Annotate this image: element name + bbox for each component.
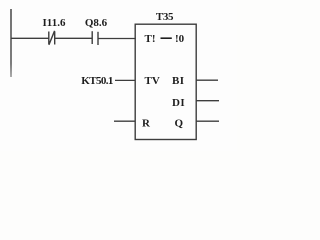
contact I11.6 (normally closed): [49, 31, 55, 45]
svg-text:Q: Q: [175, 117, 184, 129]
wire DI output: [196, 100, 219, 102]
svg-text:Q8.6: Q8.6: [85, 17, 108, 29]
svg-text:I11.6: I11.6: [43, 17, 66, 29]
timer type symbol T! - !0: [145, 33, 185, 45]
svg-text:!0: !0: [175, 33, 185, 45]
wire between I11.6 and Q8.6: [55, 37, 92, 39]
wire from Q8.6 to timer start input: [98, 38, 136, 40]
wire R input stub: [114, 120, 135, 122]
svg-text:T35: T35: [156, 11, 174, 23]
svg-text:KT50.1: KT50.1: [81, 75, 113, 87]
svg-text:T!: T!: [145, 33, 156, 45]
left power rail: [10, 9, 12, 77]
svg-text:DI: DI: [172, 97, 185, 109]
wire Q output: [196, 120, 219, 122]
svg-text:BI: BI: [172, 75, 184, 87]
wire BI output: [196, 79, 218, 81]
wire rung: rail to contact I11.6: [11, 37, 49, 39]
svg-text:TV: TV: [145, 75, 160, 87]
wire KT50.1 to pin TV: [115, 79, 135, 81]
contact Q8.6 (normally open): [92, 31, 98, 45]
timer block T35 body: [135, 24, 196, 139]
svg-text:R: R: [142, 117, 151, 129]
